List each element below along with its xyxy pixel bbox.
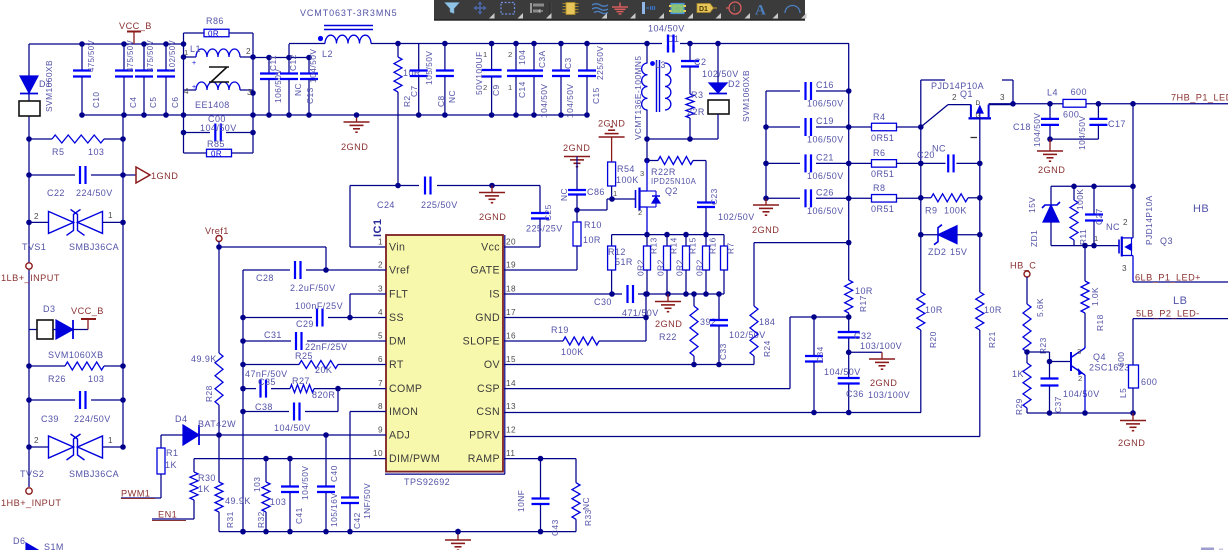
svg-text:HB: HB (1193, 203, 1209, 215)
svg-text:C39: C39 (41, 414, 59, 424)
svg-text:PJD14P10A: PJD14P10A (1144, 195, 1154, 245)
svg-text:C19: C19 (816, 116, 834, 126)
svg-text:LB: LB (1173, 295, 1187, 307)
svg-text:C13: C13 (305, 87, 315, 104)
svg-text:51R: 51R (615, 257, 633, 267)
svg-text:3: 3 (1122, 264, 1127, 273)
svg-text:10R: 10R (984, 305, 1002, 315)
svg-text:C35: C35 (258, 377, 276, 387)
resistor R86 0R (184, 16, 254, 39)
resistor R11 100K (1070, 186, 1088, 245)
capacitor C1 104/50V (648, 24, 685, 53)
capacitor C37 104/50V (1041, 362, 1100, 414)
svg-text:225/50V: 225/50V (421, 200, 458, 210)
resistor R18 1.0K (1081, 246, 1105, 346)
svg-text:C33: C33 (718, 343, 728, 360)
resistor R10 10R (504, 210, 602, 270)
svg-text:R14: R14 (669, 237, 679, 254)
resistor R22R (644, 157, 706, 197)
capacitor C10 (73, 39, 101, 115)
corner artifact (1201, 548, 1223, 550)
capacitor C41 104/50V (281, 459, 310, 532)
wire Q4 base (1027, 352, 1071, 364)
svg-text:2: 2 (246, 47, 251, 56)
svg-text:C14: C14 (517, 81, 527, 98)
svg-text:1: 1 (483, 50, 488, 59)
resistor R21 10R (976, 292, 1002, 437)
svg-text:105/50V: 105/50V (424, 51, 434, 85)
svg-text:OV: OV (484, 359, 501, 371)
svg-text:Q2: Q2 (665, 186, 678, 196)
svg-text:C31: C31 (264, 330, 282, 340)
capacitor C27 NC (1085, 186, 1120, 245)
svg-text:i: i (733, 4, 735, 13)
svg-text:184: 184 (759, 317, 775, 327)
svg-text:102/50V: 102/50V (168, 39, 177, 72)
svg-text:820R: 820R (312, 390, 335, 400)
svg-text:1: 1 (108, 211, 113, 220)
svg-text:L4: L4 (1047, 88, 1058, 98)
svg-text:103/100V: 103/100V (860, 341, 902, 351)
svg-text:C5: C5 (149, 97, 158, 108)
svg-text:15: 15 (506, 355, 516, 364)
svg-text:NC: NC (293, 83, 303, 96)
svg-text:0R51: 0R51 (871, 204, 894, 214)
svg-text:C26: C26 (816, 187, 834, 197)
svg-text:C17: C17 (1108, 119, 1126, 129)
svg-text:R18: R18 (1095, 314, 1105, 331)
svg-text:GND: GND (475, 312, 500, 324)
wire CSN row (504, 410, 921, 416)
diode D1 SVM1060XB (19, 60, 54, 116)
svg-text:C2: C2 (694, 57, 706, 67)
svg-text:1HB+_INPUT: 1HB+_INPUT (1, 498, 61, 508)
capacitor C7 105/50V (409, 44, 434, 116)
capacitor C21 106/50V (766, 152, 849, 181)
wire C1 gap mask (662, 35, 680, 53)
wire cap bank left rail (763, 91, 769, 201)
svg-text:20: 20 (506, 238, 516, 247)
wire snubber bottom (644, 136, 718, 142)
svg-text:5: 5 (378, 332, 383, 341)
capacitor C18 104/50V (1013, 104, 1059, 147)
svg-text:1: 1 (378, 238, 383, 247)
svg-text:105/16V: 105/16V (329, 493, 339, 527)
wire sense top rail (612, 232, 724, 238)
capacitor C43 10NF (504, 456, 576, 536)
svg-text:2: 2 (483, 83, 488, 92)
svg-text:1K: 1K (165, 460, 177, 470)
svg-text:R33: R33 (583, 509, 593, 526)
resistor R8 0R51 (849, 183, 921, 214)
svg-text:C21: C21 (816, 152, 834, 162)
svg-text:104/50V: 104/50V (1063, 389, 1100, 399)
svg-text:C9: C9 (491, 84, 501, 96)
wire cap bank right rail (846, 44, 852, 243)
svg-text:Vcc: Vcc (481, 242, 500, 254)
capacitor C40 105/16V (317, 435, 339, 532)
capacitor C42 1NF/50V (341, 412, 386, 532)
resistor R19 100K (504, 318, 646, 358)
svg-text:PJD14P10A: PJD14P10A (931, 81, 984, 91)
capacitor C5 (135, 39, 158, 115)
svg-text:600: 600 (1071, 87, 1087, 97)
svg-text:2GND: 2GND (1118, 438, 1145, 448)
svg-text:EE1408: EE1408 (195, 100, 230, 110)
wire transformer loop right (250, 33, 256, 153)
resistor R26 103 (26, 362, 126, 384)
svg-text:19: 19 (506, 261, 516, 270)
svg-text:3: 3 (1077, 347, 1082, 356)
svg-text:0R: 0R (211, 150, 222, 159)
svg-text:10R: 10R (855, 286, 873, 296)
svg-text:DM: DM (389, 336, 406, 348)
svg-text:104/50V: 104/50V (824, 367, 861, 377)
svg-text:R3: R3 (691, 90, 703, 100)
node HB_C (1010, 261, 1036, 305)
resistor R85 0R (184, 139, 254, 159)
op-amp U1 IC1 TPS92692 block (372, 219, 516, 487)
wire bottom cap rail (79, 112, 590, 118)
svg-text:R85: R85 (207, 139, 225, 149)
svg-text:GATE: GATE (470, 265, 500, 277)
ground 2GND at C24 (479, 186, 506, 223)
capacitor C24 225/50V (350, 177, 540, 248)
svg-text:6: 6 (378, 355, 383, 364)
svg-text:11: 11 (506, 449, 515, 458)
svg-text:10NF: 10NF (516, 490, 526, 512)
wire CSP row (504, 317, 849, 389)
svg-text:1: 1 (108, 436, 113, 445)
ground 2GND cap bank (752, 198, 779, 235)
resistor R7 0R2 (721, 235, 736, 294)
svg-text:3: 3 (1000, 93, 1005, 102)
svg-text:C6: C6 (171, 97, 180, 108)
svg-text:0R2: 0R2 (636, 259, 646, 276)
svg-text:2GND: 2GND (341, 142, 368, 152)
svg-text:C28: C28 (256, 273, 274, 283)
wire IS row (504, 291, 615, 297)
resistor R32 103 (252, 459, 286, 532)
svg-text:3: 3 (640, 169, 645, 178)
svg-text:R7: R7 (726, 242, 736, 254)
svg-text:L2: L2 (322, 49, 333, 59)
ground 2GND sense (655, 294, 682, 329)
svg-text:+: + (192, 60, 197, 67)
svg-text:3: 3 (378, 285, 383, 294)
svg-text:104/50V: 104/50V (565, 84, 575, 118)
svg-text:C34: C34 (815, 346, 825, 363)
svg-text:IS: IS (489, 289, 500, 301)
svg-text:IMON: IMON (389, 406, 418, 418)
resistor R6 0R51 (849, 148, 921, 179)
svg-text:102/50V: 102/50V (718, 212, 755, 222)
resistor R15 0R2 (675, 235, 698, 294)
capacitor C39 224/50V (26, 391, 126, 424)
svg-text:2GND: 2GND (1038, 165, 1065, 175)
svg-text:100K: 100K (616, 175, 639, 185)
resistor R14 0R2 (656, 235, 679, 294)
svg-text:471/50V: 471/50V (622, 308, 659, 318)
svg-text:NC: NC (581, 497, 591, 510)
svg-text:225/50V: 225/50V (595, 46, 605, 80)
svg-text:TPS92692: TPS92692 (404, 477, 450, 487)
svg-text:ZD2: ZD2 (928, 247, 946, 257)
svg-text:RAMP: RAMP (468, 453, 500, 465)
svg-text:15V: 15V (950, 247, 967, 257)
svg-text:C12: C12 (288, 54, 298, 71)
svg-text:R9: R9 (925, 206, 937, 216)
svg-text:2: 2 (508, 50, 513, 59)
svg-text:D2: D2 (728, 79, 740, 89)
capacitor C26 106/50V (766, 187, 849, 216)
svg-text:R54: R54 (617, 164, 635, 174)
wire Q1 gate rail (977, 118, 983, 292)
svg-text:0R51: 0R51 (871, 133, 894, 143)
svg-text:104/50V: 104/50V (300, 466, 310, 500)
svg-text:SS: SS (389, 312, 404, 324)
capacitor C17 104/50V (1050, 104, 1126, 150)
svg-text:104/50V: 104/50V (1077, 116, 1087, 150)
svg-text:5.6K: 5.6K (1035, 298, 1045, 317)
diode D2 SVM1060XB (708, 44, 751, 140)
ground 2GND at C32 (849, 352, 898, 388)
svg-text:C40: C40 (329, 465, 339, 482)
transistor Q2 IPD25N10A (577, 161, 660, 235)
svg-text:C37: C37 (1053, 396, 1063, 413)
svg-text:R29: R29 (1014, 398, 1024, 415)
svg-text:1K: 1K (1012, 369, 1024, 379)
ground 2GND LB (1118, 413, 1146, 448)
resistor R33 NC (572, 459, 593, 532)
ground 2GND at C18 (1037, 139, 1065, 175)
capacitor C23 102/50V (697, 161, 755, 235)
svg-text:104: 104 (517, 50, 527, 65)
capacitor C00 104/50V (184, 114, 254, 142)
svg-text:R5: R5 (52, 147, 64, 157)
svg-text:R20: R20 (928, 331, 938, 348)
svg-text:C8: C8 (436, 95, 446, 107)
svg-text:104/50V: 104/50V (274, 423, 311, 433)
svg-text:R6: R6 (873, 148, 885, 158)
resistor R3 22R (686, 90, 705, 139)
resistor R25 20K (240, 351, 386, 375)
svg-text:C18: C18 (1013, 122, 1031, 132)
svg-text:C38: C38 (255, 402, 273, 412)
svg-text:A: A (755, 3, 766, 19)
wire Q1 pin3 stub (1002, 80, 1016, 107)
label VCMT063T-3R3MN5 (300, 8, 398, 18)
svg-text:C22: C22 (47, 188, 65, 198)
svg-text:C32: C32 (854, 331, 872, 341)
svg-text:L3: L3 (655, 60, 666, 70)
resistor R12 51R (608, 235, 633, 294)
capacitor C14 104 (507, 44, 527, 116)
svg-text:103: 103 (88, 147, 104, 157)
svg-text:103: 103 (252, 477, 262, 492)
node 5LB_P2_LED- (1133, 309, 1228, 319)
svg-text:104/50V: 104/50V (200, 123, 237, 133)
svg-text:VCMT063T-3R3MN5: VCMT063T-3R3MN5 (300, 8, 398, 18)
svg-text:17: 17 (506, 308, 516, 317)
svg-text:4: 4 (378, 308, 383, 317)
svg-text:R24: R24 (762, 340, 772, 357)
resistor R24 184 (750, 243, 849, 365)
svg-text:SVM1060XB: SVM1060XB (741, 70, 751, 122)
svg-text:12: 12 (506, 426, 516, 435)
resistor R30 1K (190, 459, 216, 519)
svg-text:224/50V: 224/50V (76, 188, 113, 198)
svg-text:475/50V: 475/50V (126, 39, 135, 72)
svg-text:1GND: 1GND (151, 171, 178, 181)
svg-text:7HB_P1_LED: 7HB_P1_LED (1171, 93, 1228, 103)
svg-text:DIM/PWM: DIM/PWM (389, 453, 440, 465)
resistor R4 0R51 (849, 112, 921, 143)
svg-text:HB_C: HB_C (1010, 261, 1036, 271)
diode D6 S1M (13, 536, 64, 550)
wire HB top rail (989, 101, 1228, 107)
svg-text:R25: R25 (295, 351, 313, 361)
capacitor C25 225/25V (504, 186, 563, 248)
wire comp rail (240, 341, 246, 534)
wire PDRV row (504, 436, 980, 438)
zener ZD2 15V (921, 225, 980, 257)
svg-text:C30: C30 (594, 297, 612, 307)
capacitor C11 106/50V (260, 55, 283, 115)
junction dots top rail (79, 41, 169, 47)
capacitor C12 NC (280, 54, 303, 115)
svg-text:R19: R19 (551, 325, 569, 335)
svg-text:C24: C24 (377, 200, 395, 210)
svg-text:R22R: R22R (651, 167, 676, 177)
svg-text:106/50V: 106/50V (807, 135, 844, 145)
wire Q1 left rail (918, 80, 945, 292)
svg-text:1: 1 (184, 48, 189, 57)
svg-text:22R: 22R (687, 107, 705, 117)
svg-text:2: 2 (1078, 374, 1083, 383)
svg-text:C43: C43 (550, 519, 560, 536)
svg-text:104/50V: 104/50V (1032, 113, 1042, 147)
svg-text:49.9K: 49.9K (225, 496, 251, 506)
svg-text:COMP: COMP (389, 383, 422, 395)
svg-text:VCMT136E-100MN5: VCMT136E-100MN5 (633, 56, 643, 140)
svg-text:2.2uF/50V: 2.2uF/50V (290, 283, 336, 293)
svg-text:NC: NC (559, 188, 569, 201)
svg-text:C3A: C3A (537, 50, 547, 68)
wire left input rail (29, 44, 184, 487)
svg-text:103: 103 (270, 497, 286, 507)
wire bottom rail (219, 529, 576, 535)
resistor R20 10R (917, 292, 943, 413)
svg-text:R22: R22 (659, 332, 677, 342)
resistor R22 392 (659, 294, 716, 365)
resistor R23 5.6K (1023, 298, 1048, 355)
svg-text:2GND: 2GND (479, 212, 506, 222)
resistor R29 1K (1012, 352, 1031, 415)
svg-text:103/100V: 103/100V (868, 390, 910, 400)
inductor L4 600 (1047, 87, 1087, 120)
svg-text:R13: R13 (649, 237, 659, 254)
wire HB_C gate (0, 0, 1, 1)
resistor R16 0R2 (695, 235, 718, 294)
transistor Q3 PJD14P10A (1119, 195, 1173, 282)
svg-text:0R2: 0R2 (675, 259, 685, 276)
svg-text:2: 2 (34, 212, 39, 221)
resistor R5 103 (26, 135, 126, 157)
svg-text:NC: NC (447, 90, 457, 103)
wire HB clamp bottom rail (1051, 243, 1119, 249)
svg-text:C25: C25 (543, 204, 553, 221)
svg-text:C15: C15 (591, 87, 601, 104)
svg-text:1NF/50V: 1NF/50V (362, 483, 372, 519)
svg-text:100K: 100K (1075, 189, 1085, 210)
transistor Q1 PJD14P10A (921, 81, 1013, 138)
svg-text:106/50V: 106/50V (807, 206, 844, 216)
node EN1 (152, 510, 194, 521)
wire DIM row (194, 456, 386, 462)
svg-text:2GND: 2GND (563, 143, 590, 153)
svg-text:C41: C41 (294, 507, 304, 524)
capacitor C34 104/50V (805, 314, 861, 412)
node Vref1 (205, 226, 329, 273)
svg-text:R17: R17 (858, 295, 868, 312)
svg-text:C7: C7 (409, 85, 419, 97)
svg-text:475/50V: 475/50V (87, 39, 96, 72)
svg-text:104/50V: 104/50V (648, 24, 685, 34)
svg-text:D: D (976, 100, 981, 107)
capacitor C19 106/50V (766, 116, 849, 145)
label LB (1173, 295, 1187, 307)
svg-text:R30: R30 (198, 473, 216, 483)
svg-text:+: + (192, 84, 197, 91)
svg-text:R11: R11 (1078, 229, 1088, 245)
svg-text:2: 2 (34, 436, 39, 445)
svg-text:600: 600 (1141, 377, 1157, 387)
svg-text:100K: 100K (561, 347, 584, 357)
svg-text:4: 4 (184, 87, 189, 96)
svg-text:Vin: Vin (389, 242, 405, 254)
svg-text:C27: C27 (1094, 208, 1104, 225)
svg-text:6LB_P1_LED+: 6LB_P1_LED+ (1135, 273, 1201, 283)
svg-text:TVS2: TVS2 (20, 469, 44, 479)
svg-text:16: 16 (506, 332, 516, 341)
svg-text:L5: L5 (1118, 388, 1128, 398)
svg-text:2GND: 2GND (655, 319, 682, 329)
svg-text:IPD25N10A: IPD25N10A (651, 177, 697, 186)
svg-text:15V: 15V (1027, 197, 1037, 213)
svg-text:100nF/25V: 100nF/25V (295, 301, 343, 311)
resistor R9 100K (921, 194, 980, 216)
svg-text:106/50V: 106/50V (807, 99, 844, 109)
svg-text:R32: R32 (256, 511, 266, 528)
svg-text:2: 2 (952, 93, 957, 102)
power VCC_B top (119, 21, 152, 44)
capacitor C29 100nF/25V (240, 294, 386, 329)
svg-text:Vref1: Vref1 (205, 226, 229, 236)
svg-text:102/50V: 102/50V (729, 330, 766, 340)
svg-text:BAT42W: BAT42W (198, 419, 236, 429)
svg-text:SVM1060XB: SVM1060XB (48, 350, 104, 360)
capacitor C35 47nF/50V (243, 369, 290, 398)
svg-text:C16: C16 (816, 80, 834, 90)
svg-text:1.0K: 1.0K (1090, 287, 1100, 306)
svg-text:Q3: Q3 (1160, 236, 1173, 246)
svg-text:13: 13 (506, 402, 516, 411)
svg-text:EN1: EN1 (158, 510, 177, 520)
svg-text:C3: C3 (563, 57, 573, 69)
svg-text:103: 103 (88, 374, 104, 384)
inductor L5 600 (1116, 319, 1157, 413)
